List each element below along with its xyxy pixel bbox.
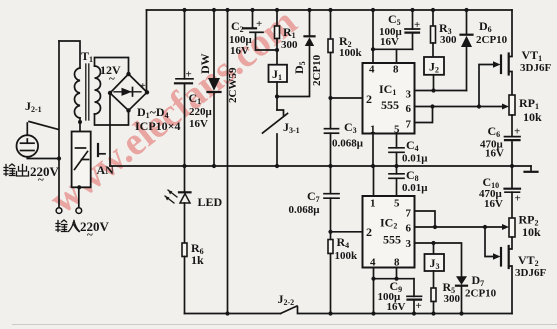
svg-text:555: 555: [383, 233, 401, 247]
resistor R4: [328, 232, 358, 316]
svg-text:LED: LED: [198, 195, 223, 209]
capacitor C5: [379, 8, 420, 49]
svg-text:+: +: [256, 18, 262, 30]
resistor R1: [275, 8, 299, 65]
capacitor C4: [389, 134, 428, 169]
resistor R3: [431, 8, 458, 57]
socket output 220V: [17, 123, 62, 161]
svg-text:+: +: [414, 19, 420, 31]
label output 220V: [4, 164, 60, 186]
wire mains left pole: [58, 41, 60, 208]
svg-text:220μ: 220μ: [189, 106, 213, 118]
potentiometer RP1: [509, 95, 542, 137]
svg-text:10k: 10k: [522, 225, 541, 239]
svg-text:300: 300: [281, 39, 298, 51]
svg-text:16V: 16V: [189, 118, 208, 130]
relay contact J1-1 with button AN: [72, 132, 115, 190]
label 12V secondary: [100, 63, 121, 85]
transformer T1: [59, 41, 129, 132]
timer IC1 555: [363, 63, 415, 136]
svg-text:AN: AN: [97, 163, 115, 177]
svg-text:0.01μ: 0.01μ: [402, 182, 428, 194]
wire pin1 IC2 to rail: [373, 166, 375, 196]
svg-text:16V: 16V: [485, 148, 504, 160]
wire pin7 IC2 tie: [415, 211, 436, 227]
svg-text:16V: 16V: [484, 198, 503, 210]
wire pin3 IC2: [415, 241, 462, 276]
svg-text:+: +: [515, 193, 521, 205]
svg-text:~: ~: [87, 229, 93, 241]
wire top +V rail: [147, 9, 513, 11]
resistor R5: [431, 280, 461, 316]
wire gate VT2: [485, 227, 501, 260]
capacitor C3: [325, 98, 364, 168]
capacitor C2: [229, 8, 277, 57]
relay J2: [424, 57, 444, 93]
transistor VT2: [501, 237, 546, 314]
svg-text:2CP10: 2CP10: [476, 34, 508, 46]
svg-text:100k: 100k: [339, 47, 363, 59]
diode D6: [461, 8, 508, 91]
ground: [525, 166, 538, 172]
diode D5: [277, 8, 323, 97]
timer IC2 555: [363, 196, 415, 269]
potentiometer RP2: [509, 213, 541, 240]
svg-text:220V: 220V: [30, 164, 60, 179]
capacitor C8: [389, 166, 428, 196]
svg-text:7: 7: [406, 119, 412, 131]
svg-text:16V: 16V: [380, 36, 399, 48]
bottom page smudge: [12, 324, 557, 326]
svg-text:+: +: [416, 300, 422, 312]
transistor VT1: [501, 10, 551, 95]
svg-text:~: ~: [109, 73, 115, 85]
resistor R6: [182, 241, 204, 314]
svg-text:3DJ6F: 3DJ6F: [520, 62, 551, 74]
svg-text:D1~D4: D1~D4: [137, 105, 169, 120]
wire gate VT1: [479, 61, 501, 106]
svg-text:0.01μ: 0.01μ: [402, 153, 428, 165]
capacitor C9: [378, 279, 422, 316]
capacitor C6: [480, 124, 520, 168]
svg-text:300: 300: [440, 34, 457, 46]
svg-text:~: ~: [38, 174, 44, 186]
svg-text:2CW59: 2CW59: [227, 67, 239, 103]
resistor R2: [328, 8, 363, 98]
svg-text:6: 6: [406, 223, 412, 235]
svg-text:5: 5: [394, 198, 400, 210]
bottom rail with switch J2-2: [185, 292, 513, 314]
svg-text:0.068μ: 0.068μ: [332, 138, 364, 150]
svg-text:555: 555: [381, 98, 399, 112]
svg-text:+: +: [140, 81, 146, 92]
zener DW: [198, 8, 239, 168]
LED: [165, 166, 223, 243]
svg-text:300: 300: [444, 293, 461, 305]
wire pin1 IC1 to rail: [371, 134, 375, 169]
svg-text:220V: 220V: [80, 219, 110, 234]
svg-text:16V: 16V: [387, 301, 406, 313]
switch J2-1: [25, 99, 59, 130]
svg-text:1: 1: [370, 198, 376, 210]
relay J1: [269, 65, 288, 99]
wire IC1 supply pins 4,8: [371, 8, 413, 63]
capacitor C7: [289, 166, 340, 232]
svg-text:ICP10×4: ICP10×4: [135, 119, 181, 133]
wire +V to bottom rail (x227): [225, 8, 229, 316]
wire bridge DC+ riser: [146, 10, 148, 92]
node pin2 IC2 wire: [328, 230, 362, 234]
svg-text:6: 6: [406, 103, 412, 115]
wire bridge DC- to mid rail: [109, 93, 111, 166]
relay J3: [425, 243, 445, 288]
capacitor C10: [479, 166, 521, 218]
wire IC2 supply pins 4,8: [371, 268, 414, 316]
wire pin6 IC2 to RP2: [415, 224, 510, 230]
svg-text:+: +: [514, 126, 520, 138]
wire pin6 IC1 to RP1: [415, 104, 510, 110]
svg-text:3DJ6F: 3DJ6F: [515, 267, 546, 279]
node pin2 IC1 wire: [328, 96, 362, 100]
svg-text:0.068μ: 0.068μ: [289, 204, 321, 216]
svg-text:1k: 1k: [191, 253, 204, 267]
svg-text:2: 2: [366, 225, 372, 239]
svg-text:16V: 16V: [230, 45, 249, 57]
svg-text:3: 3: [406, 89, 412, 101]
diode D7: [456, 273, 497, 316]
svg-text:10k: 10k: [523, 110, 542, 124]
wire pin3 IC1: [415, 90, 467, 92]
svg-text:7: 7: [406, 208, 412, 220]
mid rail (common): [110, 165, 531, 167]
input terminals 220V: [56, 187, 110, 241]
switch J3-1: [263, 97, 300, 169]
svg-text:2CP10: 2CP10: [311, 54, 323, 86]
svg-text:8: 8: [393, 64, 399, 76]
svg-text:DW: DW: [198, 53, 212, 74]
capacitor C1: [175, 8, 213, 168]
svg-text:100k: 100k: [335, 250, 359, 262]
svg-text:4: 4: [369, 64, 375, 76]
watermark www.elecfans.com: [40, 0, 304, 222]
bridge rectifier D1~D4: [108, 72, 181, 133]
svg-text:3: 3: [406, 238, 412, 250]
svg-text:2CP10: 2CP10: [465, 288, 497, 300]
svg-text:2: 2: [366, 92, 372, 106]
wire pin7 IC1 tie: [415, 107, 433, 123]
svg-text:+: +: [186, 69, 192, 81]
